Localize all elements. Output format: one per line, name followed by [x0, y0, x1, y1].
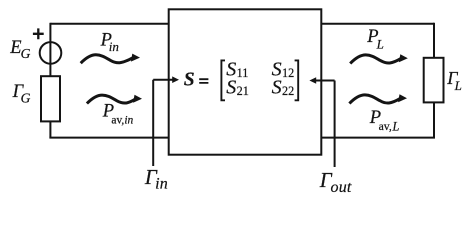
wire left vertical through source	[49, 23, 51, 77]
incident-wave arrow into port 2	[316, 80, 335, 82]
svg-text:G: G	[21, 46, 31, 61]
wire top-right horizontal from box to load	[321, 23, 434, 25]
right bracket	[295, 60, 299, 100]
svg-text:L: L	[454, 78, 462, 93]
voltage source E_G (circle)	[40, 42, 62, 64]
svg-text:S: S	[184, 70, 195, 91]
svg-text:av,: av,	[111, 115, 124, 127]
wire right-bottom vertical from load	[433, 102, 435, 137]
Γ_in reference line	[152, 80, 154, 166]
svg-text:22: 22	[282, 84, 294, 98]
svg-text:in: in	[155, 176, 168, 193]
svg-text:av,: av,	[379, 120, 392, 133]
power wave arrow P_in	[81, 54, 140, 64]
source impedance Γ_G (rectangle)	[41, 76, 60, 121]
equals sign	[199, 79, 208, 83]
svg-text:G: G	[21, 91, 31, 106]
svg-text:in: in	[109, 39, 119, 54]
incident-wave arrow into port 1	[153, 79, 173, 81]
svg-text:11: 11	[237, 66, 249, 80]
svg-text:out: out	[331, 179, 352, 196]
two-port network box	[169, 9, 322, 154]
svg-text:in: in	[124, 115, 133, 127]
power wave arrow P_av,in	[87, 95, 142, 104]
wire bottom-right horizontal back to box	[321, 137, 435, 139]
Γ_out reference line	[334, 81, 336, 168]
power wave arrow P_av,L	[349, 94, 407, 103]
svg-text:L: L	[392, 119, 400, 133]
svg-text:S: S	[226, 76, 236, 98]
wire top-left horizontal from source to network box	[50, 23, 168, 25]
svg-text:L: L	[376, 36, 384, 51]
wire bottom-left horizontal to network box	[49, 137, 168, 139]
wire left-bottom vertical	[49, 121, 51, 137]
svg-text:S: S	[272, 76, 282, 98]
svg-text:12: 12	[282, 66, 294, 80]
wire right vertical down to load	[433, 23, 434, 58]
load impedance Γ_L (rectangle)	[424, 58, 444, 103]
plus polarity mark	[33, 28, 44, 39]
power wave arrow P_L	[350, 54, 408, 63]
svg-text:21: 21	[237, 84, 249, 98]
left bracket	[221, 60, 225, 100]
